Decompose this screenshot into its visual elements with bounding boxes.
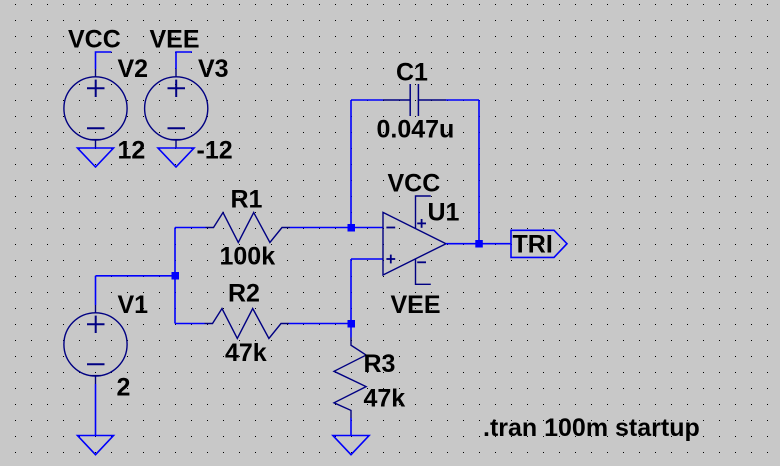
junction V1 bus: [172, 272, 180, 280]
svg-text:-12: -12: [197, 137, 233, 165]
wire C1 left vertical: [350, 100, 352, 228]
wire R2 right: [289, 323, 351, 325]
ground below V2: [78, 148, 114, 167]
wire inverting input: [351, 227, 383, 229]
junction output: [475, 240, 483, 248]
junction R1 op-amp inverting input: [348, 224, 356, 232]
svg-text:VEE: VEE: [150, 26, 200, 54]
net label VCC: [68, 26, 121, 54]
wire C1 right top: [446, 99, 479, 101]
wire V1 to bus: [96, 275, 176, 277]
wire R3 bottom: [350, 418, 352, 436]
net label VEE: [150, 26, 200, 54]
net label VCC op-amp: [388, 170, 441, 198]
value 47k: [225, 339, 267, 367]
value 0.047u: [377, 116, 455, 144]
svg-text:12: 12: [118, 137, 146, 165]
svg-text:TRI: TRI: [513, 231, 553, 259]
value -12: [197, 137, 233, 165]
voltage source V3: [145, 69, 208, 148]
ground below V1: [78, 436, 114, 455]
voltage source V2: [64, 69, 127, 148]
svg-text:R3: R3: [364, 350, 396, 378]
wire C1 left top: [351, 99, 383, 101]
label R2: [228, 280, 260, 308]
label C1: [396, 59, 428, 87]
value 47k R3: [364, 385, 406, 413]
node VEE flag at V3: [176, 52, 192, 69]
svg-text:R2: R2: [228, 280, 260, 308]
node VEE flag at op-amp: [416, 259, 431, 285]
op-amp U1: [383, 212, 446, 275]
svg-text:V2: V2: [118, 55, 149, 83]
svg-text:C1: C1: [396, 59, 428, 87]
resistor R3: [334, 338, 366, 419]
svg-text:100k: 100k: [220, 243, 276, 271]
svg-text:47k: 47k: [364, 385, 406, 413]
wire noninverting vertical: [350, 259, 352, 324]
wire R3 top: [350, 324, 352, 338]
wire V1 bottom: [95, 384, 97, 436]
svg-text:VEE: VEE: [391, 291, 441, 319]
wire vertical bus R1 to R2: [174, 228, 176, 324]
voltage source V1: [64, 305, 127, 384]
label V1: [118, 291, 149, 319]
label V2: [118, 55, 149, 83]
value 2: [117, 374, 131, 402]
wire op-amp output: [446, 243, 511, 245]
svg-text:.tran 100m startup: .tran 100m startup: [483, 414, 700, 442]
ground below V3: [158, 148, 194, 167]
svg-text:0.047u: 0.047u: [377, 116, 455, 144]
wire R1 right: [290, 227, 351, 229]
label U1: [428, 199, 460, 227]
junction R2 R3: [348, 320, 356, 328]
label V3: [198, 55, 229, 83]
output port TRI: [511, 230, 567, 257]
svg-text:VCC: VCC: [68, 26, 121, 54]
spice directive .tran 100m startup: [483, 414, 700, 442]
svg-text:2: 2: [117, 374, 131, 402]
svg-text:V1: V1: [118, 291, 149, 319]
value 100k: [220, 243, 276, 271]
node VCC flag at V2: [96, 52, 112, 69]
wire R1 left: [175, 227, 206, 229]
ground below R3: [333, 436, 369, 455]
resistor R1: [206, 213, 291, 243]
svg-text:V3: V3: [198, 55, 229, 83]
svg-text:VCC: VCC: [388, 170, 441, 198]
resistor R2: [205, 309, 290, 339]
svg-text:U1: U1: [428, 199, 460, 227]
wire noninverting input: [351, 258, 383, 260]
wire C1 right vertical: [478, 100, 480, 244]
value 12: [118, 137, 146, 165]
label R3: [364, 350, 396, 378]
svg-text:47k: 47k: [225, 339, 267, 367]
capacitor C1: [383, 84, 446, 116]
label R1: [231, 186, 263, 214]
wire V1 top vertical: [95, 276, 97, 305]
net label VEE op-amp: [391, 291, 441, 319]
node VCC flag at op-amp: [416, 196, 431, 228]
wire R2 left: [175, 323, 205, 325]
svg-text:R1: R1: [231, 186, 263, 214]
net label TRI: [513, 231, 553, 259]
